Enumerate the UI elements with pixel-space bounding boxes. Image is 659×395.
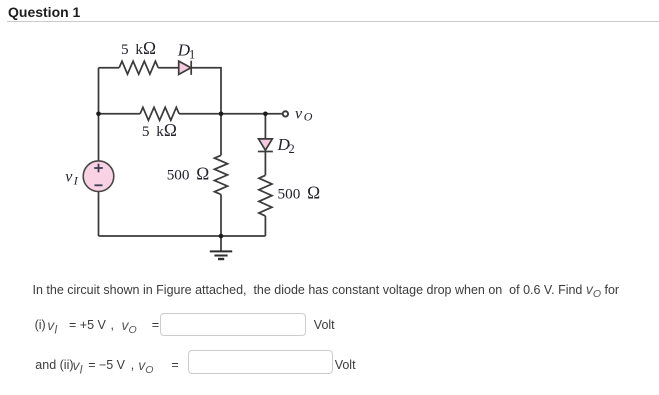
wire left 500 ohm branch upper: [220, 114, 222, 156]
svg-text:2: 2: [289, 142, 295, 156]
resistor R3 500 Ohm (left vertical): [215, 155, 228, 194]
node center-middle: [219, 112, 224, 117]
svg-text:5 kΩ: 5 kΩ: [121, 38, 156, 58]
labels: [65, 38, 320, 203]
vO open terminal: [283, 111, 288, 116]
question text line 1: [33, 281, 620, 300]
ground symbol: [210, 251, 232, 259]
node bottom ground: [219, 234, 224, 239]
node left-middle: [96, 112, 101, 117]
svg-text:500 Ω: 500 Ω: [167, 164, 210, 184]
bottom rail wire: [99, 235, 266, 237]
wire middle rail right to vO terminal: [179, 113, 282, 115]
wire middle rail left: [99, 113, 141, 115]
resistor R4 500 Ohm (right vertical): [259, 175, 272, 216]
resistor R2 5 kOhm (middle): [140, 107, 179, 120]
wire top-left vertical (vI to top rail): [98, 68, 100, 161]
voltage source vI: [83, 161, 114, 192]
wire R4 to bottom rail: [264, 216, 266, 236]
wire R1 to D1: [158, 67, 179, 69]
line (ii): [35, 358, 73, 372]
wire top rail left segment: [99, 67, 120, 69]
svg-text:v: v: [295, 106, 303, 123]
wire vI lower: [98, 192, 100, 237]
wire R3 to bottom rail: [220, 195, 222, 237]
svg-text:1: 1: [189, 48, 195, 62]
svg-text:I: I: [73, 173, 79, 187]
diode D2: [259, 139, 273, 150]
input box (i): [160, 313, 306, 336]
header rule: [7, 21, 659, 22]
wire D2 branch upper: [264, 114, 266, 139]
input box (ii): [188, 350, 333, 374]
svg-text:O: O: [304, 110, 313, 124]
line (i): [35, 318, 46, 332]
diode D1: [179, 61, 191, 74]
wire D1 to top-right corner and down: [191, 68, 221, 114]
svg-text:v: v: [65, 168, 73, 185]
wire D2 to R4: [264, 152, 266, 176]
svg-text:500 Ω: 500 Ω: [278, 183, 321, 203]
title: [8, 4, 80, 20]
resistor R1 5 kOhm (top): [119, 61, 158, 74]
ground stub: [220, 236, 222, 251]
junction node dots: [96, 112, 268, 239]
node D2 top: [263, 112, 268, 117]
svg-text:5 kΩ: 5 kΩ: [142, 120, 177, 140]
